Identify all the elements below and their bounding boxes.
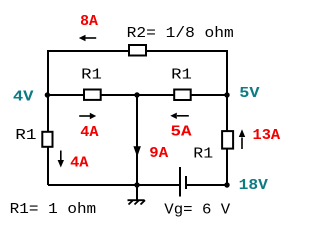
svg-text:4V: 4V	[13, 89, 34, 105]
svg-text:R1: R1	[193, 147, 213, 163]
svg-text:8A: 8A	[80, 14, 98, 30]
svg-text:R1: R1	[15, 128, 36, 144]
svg-text:4A: 4A	[80, 125, 99, 141]
svg-text:5A: 5A	[171, 124, 192, 140]
svg-text:R1: R1	[81, 68, 102, 84]
svg-text:R1: R1	[171, 68, 192, 84]
svg-text:18V: 18V	[239, 178, 269, 194]
svg-text:R1= 1 ohm: R1= 1 ohm	[10, 202, 97, 218]
svg-text:5V: 5V	[239, 86, 260, 102]
svg-text:4A: 4A	[70, 156, 89, 172]
svg-text:9A: 9A	[149, 146, 168, 162]
svg-text:R2= 1/8 ohm: R2= 1/8 ohm	[127, 26, 234, 42]
svg-text:Vg= 6 V: Vg= 6 V	[164, 203, 230, 219]
svg-text:13A: 13A	[253, 128, 281, 144]
